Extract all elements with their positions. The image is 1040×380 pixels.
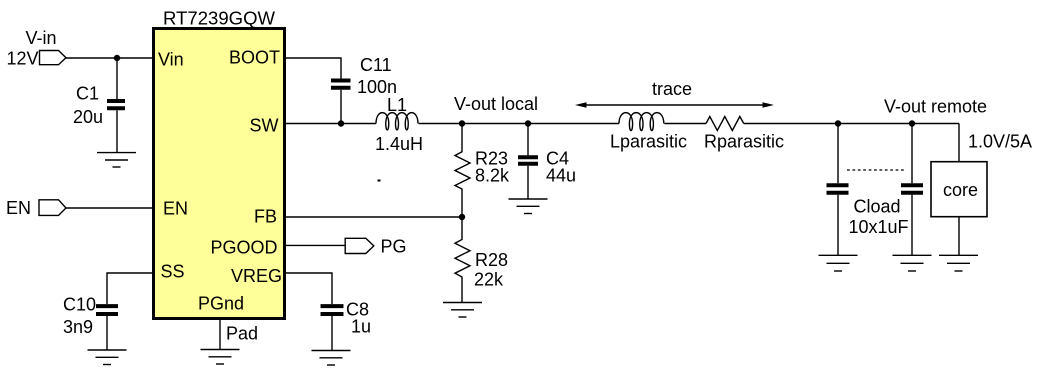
label C4: [546, 149, 569, 169]
pin label Vin: [158, 50, 184, 70]
label C1: [76, 84, 99, 104]
svg-text:FB: FB: [254, 207, 277, 227]
svg-text:20u: 20u: [73, 107, 103, 127]
label 8.2k: [475, 166, 510, 186]
svg-text:3n9: 3n9: [63, 317, 93, 337]
svg-text:PGOOD: PGOOD: [210, 238, 277, 258]
pin label BOOT: [229, 48, 280, 68]
capacitor C10: [96, 306, 118, 314]
wire VREG pin to C8: [286, 273, 332, 304]
wire junction B down to Cload cap 2: [911, 124, 913, 184]
wire C1 to ground: [116, 110, 118, 152]
svg-text:PGnd: PGnd: [198, 294, 244, 314]
pin label PGOOD: [210, 238, 277, 258]
pin label EN: [163, 199, 188, 219]
ground C1: [97, 153, 136, 167]
trace extent arrow: [575, 102, 774, 108]
svg-text:L1: L1: [387, 95, 407, 115]
wire Rparasitic to V-out remote: [744, 123, 959, 125]
label Pad: [226, 324, 258, 344]
resistor R23: [455, 124, 470, 218]
svg-text:12V: 12V: [7, 49, 39, 69]
label 10x1uF: [849, 217, 909, 237]
svg-text:C11: C11: [360, 55, 392, 75]
svg-text:R28: R28: [475, 250, 508, 270]
svg-text:1u: 1u: [351, 317, 371, 337]
wire V-in port to Vin pin: [66, 57, 152, 59]
IC U1 RT7239GQW body: [154, 29, 285, 319]
svg-text:VREG: VREG: [231, 266, 282, 286]
svg-text:C10: C10: [63, 295, 96, 315]
capacitor C1: [107, 101, 125, 108]
svg-text:10x1uF: 10x1uF: [849, 217, 909, 237]
svg-text:PG: PG: [381, 237, 407, 257]
label 1.0V/5A: [968, 132, 1032, 152]
resistor R28: [455, 217, 470, 303]
node SW junction: [338, 120, 344, 126]
label EN: [6, 198, 31, 218]
svg-text:8.2k: 8.2k: [475, 166, 510, 186]
label Rparasitic: [704, 132, 784, 152]
wire BOOT pin to C11: [286, 58, 341, 79]
capacitor C8: [321, 306, 344, 314]
wire SS pin to C10: [107, 273, 152, 304]
dashed ellipsis between Cload caps: [847, 169, 904, 171]
svg-text:SW: SW: [250, 116, 279, 136]
wire Lparasitic to Rparasitic: [664, 123, 706, 125]
ground C4: [509, 199, 548, 214]
pin label SW: [250, 116, 279, 136]
svg-text:Lparasitic: Lparasitic: [610, 132, 687, 152]
inductor Lparasitic: [619, 113, 664, 131]
ground R28: [443, 303, 482, 318]
wire rail corner down to core: [958, 124, 960, 162]
capacitor C11: [331, 81, 351, 88]
pin label PGnd: [198, 294, 244, 314]
wire FB pin to node: [286, 216, 462, 218]
svg-text:1.4uH: 1.4uH: [375, 134, 423, 154]
node V-out local junction B: [525, 120, 531, 126]
node V-out remote junction B: [909, 120, 915, 126]
input port V-in: [40, 51, 67, 65]
svg-text:Cload: Cload: [854, 197, 901, 217]
wire C8 to ground: [331, 316, 333, 351]
label R28: [475, 250, 508, 270]
label C10: [63, 295, 96, 315]
label 3n9: [63, 317, 93, 337]
ground core: [939, 255, 978, 271]
label core: [943, 180, 978, 200]
svg-text:1.0V/5A: 1.0V/5A: [968, 132, 1032, 152]
wire Cload 1 to ground: [837, 195, 839, 256]
input port EN: [39, 200, 66, 216]
svg-text:Vin: Vin: [158, 50, 184, 70]
svg-text:core: core: [943, 180, 978, 200]
wire C10 to ground: [106, 316, 108, 350]
wire junction A down to Cload cap 1: [837, 124, 839, 184]
ground C10: [88, 350, 127, 365]
pin label FB: [254, 207, 277, 227]
label 22k: [474, 270, 504, 290]
output port PG: [345, 238, 374, 253]
svg-text:Pad: Pad: [226, 324, 258, 344]
capacitor Cload 2: [901, 185, 923, 193]
label 1u: [351, 317, 371, 337]
core load box: [931, 162, 987, 217]
ground Cload 1: [819, 255, 858, 271]
stray dot mark: [378, 180, 381, 182]
wire junction down to C1: [116, 58, 118, 99]
resistor Rparasitic: [706, 117, 744, 131]
IC U1 title RT7239GQW: [163, 9, 275, 29]
wire core to ground: [958, 217, 960, 256]
svg-text:EN: EN: [6, 198, 31, 218]
svg-text:V-in: V-in: [26, 28, 57, 48]
label 100n: [357, 77, 397, 97]
node V-out local junction A: [459, 120, 465, 126]
label 12V: [7, 49, 39, 69]
label trace: [652, 79, 692, 99]
svg-text:V-out remote: V-out remote: [884, 97, 987, 117]
ground Cload 2: [893, 255, 932, 271]
svg-text:Rparasitic: Rparasitic: [704, 132, 784, 152]
wire C11 to SW node: [340, 90, 342, 124]
node V-out remote junction A: [835, 120, 841, 126]
label C8: [346, 300, 369, 320]
wire junction B down to C4: [527, 124, 529, 156]
pin label VREG: [231, 266, 282, 286]
inductor L1: [376, 113, 418, 130]
capacitor Cload 1: [827, 185, 849, 193]
label R23: [475, 149, 508, 169]
wire SW pin to L1: [286, 123, 376, 125]
ground Pad: [201, 350, 240, 365]
wire PGOOD pin to PG port: [286, 244, 345, 246]
svg-text:EN: EN: [163, 199, 188, 219]
label V-out remote: [884, 97, 987, 117]
wire EN port to EN pin: [66, 207, 152, 209]
svg-text:C1: C1: [76, 84, 99, 104]
svg-text:22k: 22k: [474, 270, 504, 290]
label Lparasitic: [610, 132, 687, 152]
node Vin junction: [114, 55, 120, 61]
label 20u: [73, 107, 103, 127]
label Cload: [854, 197, 901, 217]
svg-text:SS: SS: [161, 262, 185, 282]
label 1.4uH: [375, 134, 423, 154]
wire Pad to ground: [219, 320, 221, 350]
svg-text:V-out local: V-out local: [454, 94, 538, 114]
svg-text:RT7239GQW: RT7239GQW: [163, 9, 275, 29]
label L1: [387, 95, 407, 115]
pin label SS: [161, 262, 185, 282]
label 44u: [546, 166, 576, 186]
wire Cload 2 to ground: [911, 195, 913, 256]
svg-text:trace: trace: [652, 79, 692, 99]
label V-out local: [454, 94, 538, 114]
label PG: [381, 237, 407, 257]
label C11: [360, 55, 392, 75]
label V-in: [26, 28, 57, 48]
svg-text:100n: 100n: [357, 77, 397, 97]
wire C4 to ground: [527, 166, 529, 199]
svg-text:44u: 44u: [546, 166, 576, 186]
svg-text:BOOT: BOOT: [229, 48, 280, 68]
wire L1 to Lparasitic (output rail): [419, 123, 619, 125]
ground C8: [312, 351, 351, 366]
capacitor C4: [518, 157, 538, 164]
node FB junction: [459, 214, 465, 220]
